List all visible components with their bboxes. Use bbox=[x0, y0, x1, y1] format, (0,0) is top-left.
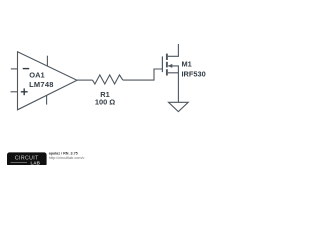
op-amp V+ supply tick bbox=[46, 56, 48, 67]
transistor M1 channel bottom bar bbox=[166, 69, 168, 75]
svg-text:IRF530: IRF530 bbox=[182, 69, 206, 78]
transistor M1 channel middle bar bbox=[166, 62, 168, 68]
ground bbox=[169, 102, 189, 111]
svg-text:http://circuitlab.com/c: http://circuitlab.com/c bbox=[49, 156, 85, 160]
op-amp minus sign bbox=[23, 68, 30, 69]
op-amp OA1 bbox=[18, 52, 78, 110]
svg-text:LM748: LM748 bbox=[29, 80, 54, 89]
op-amp V- supply tick bbox=[46, 95, 48, 104]
wire drain lead bbox=[168, 44, 179, 56]
transistor M1 channel top bar bbox=[166, 54, 168, 60]
wire non-inverting input stub bbox=[11, 91, 18, 93]
wire op-amp output to resistor bbox=[77, 79, 93, 81]
transistor M1 gate bar bbox=[161, 56, 163, 72]
resistor R1 bbox=[93, 75, 123, 84]
op-amp plus sign bbox=[21, 91, 28, 92]
wire inverting input stub bbox=[11, 68, 18, 70]
wire source lead bbox=[168, 73, 179, 103]
transistor M1 body arrow head bbox=[168, 64, 172, 68]
svg-text:LAB: LAB bbox=[30, 161, 40, 165]
svg-text:100 Ω: 100 Ω bbox=[95, 98, 115, 107]
wire resistor to gate corner bbox=[123, 69, 163, 80]
svg-text:M1: M1 bbox=[182, 60, 192, 69]
svg-text:OA1: OA1 bbox=[29, 71, 44, 80]
watermark logo box bbox=[7, 152, 47, 166]
wire body lead bbox=[168, 66, 178, 73]
